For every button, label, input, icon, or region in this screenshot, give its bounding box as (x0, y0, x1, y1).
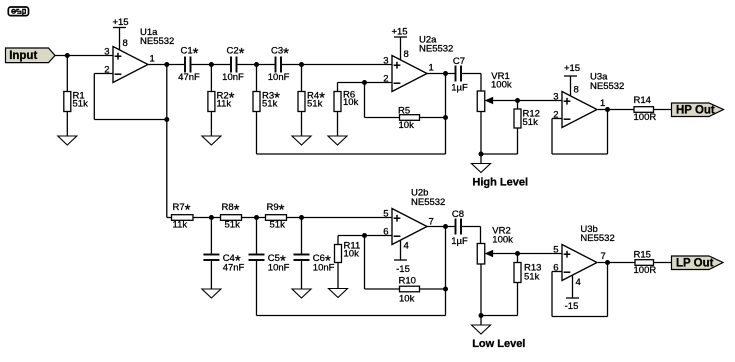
svg-text:51k: 51k (307, 98, 323, 109)
svg-text:100k: 100k (491, 80, 512, 91)
svg-text:-15: -15 (565, 301, 579, 312)
svg-text:10nF: 10nF (268, 263, 290, 274)
svg-text:1µF: 1µF (451, 83, 468, 94)
svg-text:C7: C7 (453, 56, 465, 67)
svg-text:R5: R5 (398, 106, 410, 117)
svg-text:+15: +15 (564, 63, 580, 74)
svg-text:R14: R14 (634, 95, 651, 106)
svg-text:8: 8 (123, 38, 128, 49)
svg-text:NE5532: NE5532 (590, 81, 624, 92)
svg-text:11k: 11k (217, 98, 232, 109)
svg-text:10nF: 10nF (268, 72, 290, 83)
svg-text:NE5532: NE5532 (140, 36, 174, 47)
svg-text:10k: 10k (344, 249, 360, 260)
svg-text:47nF: 47nF (223, 263, 245, 274)
svg-text:51k: 51k (524, 272, 540, 283)
svg-text:51k: 51k (270, 220, 286, 231)
svg-text:R15: R15 (634, 250, 651, 261)
svg-text:51k: 51k (523, 117, 539, 128)
svg-text:+15: +15 (112, 17, 128, 28)
svg-text:+15: +15 (391, 27, 407, 38)
svg-text:8: 8 (574, 85, 579, 96)
svg-text:High Level: High Level (472, 177, 528, 189)
svg-text:5: 5 (383, 209, 388, 220)
svg-text:10nF: 10nF (222, 72, 244, 83)
svg-text:1: 1 (150, 54, 155, 65)
svg-text:HP Out: HP Out (676, 104, 715, 116)
svg-text:100R: 100R (634, 112, 657, 123)
svg-text:4: 4 (404, 241, 409, 252)
svg-text:100k: 100k (492, 235, 513, 246)
svg-text:1: 1 (429, 63, 434, 74)
svg-text:6: 6 (383, 227, 388, 238)
svg-text:3: 3 (383, 56, 388, 67)
svg-text:10k: 10k (399, 293, 415, 304)
svg-text:C8: C8 (452, 209, 464, 220)
svg-text:7: 7 (601, 251, 606, 262)
svg-text:51k: 51k (262, 98, 278, 109)
svg-text:R10: R10 (399, 276, 416, 287)
svg-text:2: 2 (104, 65, 109, 76)
svg-text:51k: 51k (225, 220, 241, 231)
svg-text:10k: 10k (399, 120, 415, 131)
svg-text:10k: 10k (343, 97, 359, 108)
svg-text:1µF: 1µF (451, 236, 468, 247)
svg-text:Low Level: Low Level (472, 338, 525, 350)
svg-text:5: 5 (553, 245, 558, 256)
svg-text:NE5532: NE5532 (419, 44, 453, 55)
svg-text:-15: -15 (396, 264, 410, 275)
svg-text:51k: 51k (73, 98, 89, 109)
svg-text:Input: Input (9, 50, 37, 62)
svg-text:3: 3 (553, 92, 558, 103)
svg-text:11k: 11k (173, 220, 188, 231)
svg-text:4: 4 (576, 277, 581, 288)
svg-text:8: 8 (404, 49, 409, 60)
svg-text:2: 2 (383, 74, 388, 85)
svg-text:47nF: 47nF (178, 72, 200, 83)
svg-text:10nF: 10nF (313, 263, 335, 274)
svg-text:NE5532: NE5532 (411, 197, 445, 208)
svg-text:3: 3 (104, 47, 109, 58)
svg-text:LP Out: LP Out (676, 257, 714, 269)
svg-text:NE5532: NE5532 (580, 233, 614, 244)
svg-text:1: 1 (600, 98, 605, 109)
svg-text:100R: 100R (634, 265, 657, 276)
